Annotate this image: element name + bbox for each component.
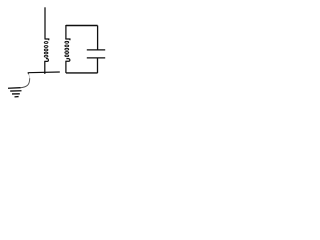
wire capacitor top lead xyxy=(97,26,99,50)
inductor L1 turn 1 xyxy=(44,42,48,44)
inductor L1 top hook xyxy=(45,39,49,40)
inductor L1 turn 3 xyxy=(44,49,48,51)
wire ground lower curve xyxy=(21,78,30,88)
capacitor C1 top plate xyxy=(87,49,105,51)
ground bar 4 xyxy=(15,96,19,98)
inductor L2 turn 4 xyxy=(65,52,69,54)
wire tank top rail xyxy=(66,25,98,27)
wire ground faint curve xyxy=(29,74,30,78)
wire ground curl xyxy=(27,73,30,75)
inductor L1 bottom hook xyxy=(45,59,49,62)
wire capacitor bottom lead xyxy=(97,58,99,73)
wire ground horizontal xyxy=(28,71,60,74)
inductor L2 top hook xyxy=(65,39,70,40)
inductor L1 turn 4 xyxy=(44,52,48,54)
wire antenna lead xyxy=(44,7,46,39)
inductor L2 turn 2 xyxy=(65,45,69,47)
inductor L1 turn 2 xyxy=(44,46,48,48)
ground bar 2 xyxy=(10,90,21,92)
ground bar 1 xyxy=(8,87,21,90)
inductor L2 turn 3 xyxy=(65,48,69,50)
wire tank left bottom xyxy=(65,61,67,73)
wire tank left top xyxy=(65,25,67,39)
wire tank bottom rail xyxy=(66,72,98,74)
ground bar 3 xyxy=(12,93,20,95)
wire L1 bottom lead xyxy=(44,61,46,74)
inductor L2 turn 1 xyxy=(65,41,69,43)
inductor L2 turn 5 xyxy=(65,55,69,57)
inductor L2 bottom hook xyxy=(66,58,70,61)
inductor L1 turn 5 xyxy=(44,55,48,57)
capacitor C1 bottom plate xyxy=(87,57,105,59)
